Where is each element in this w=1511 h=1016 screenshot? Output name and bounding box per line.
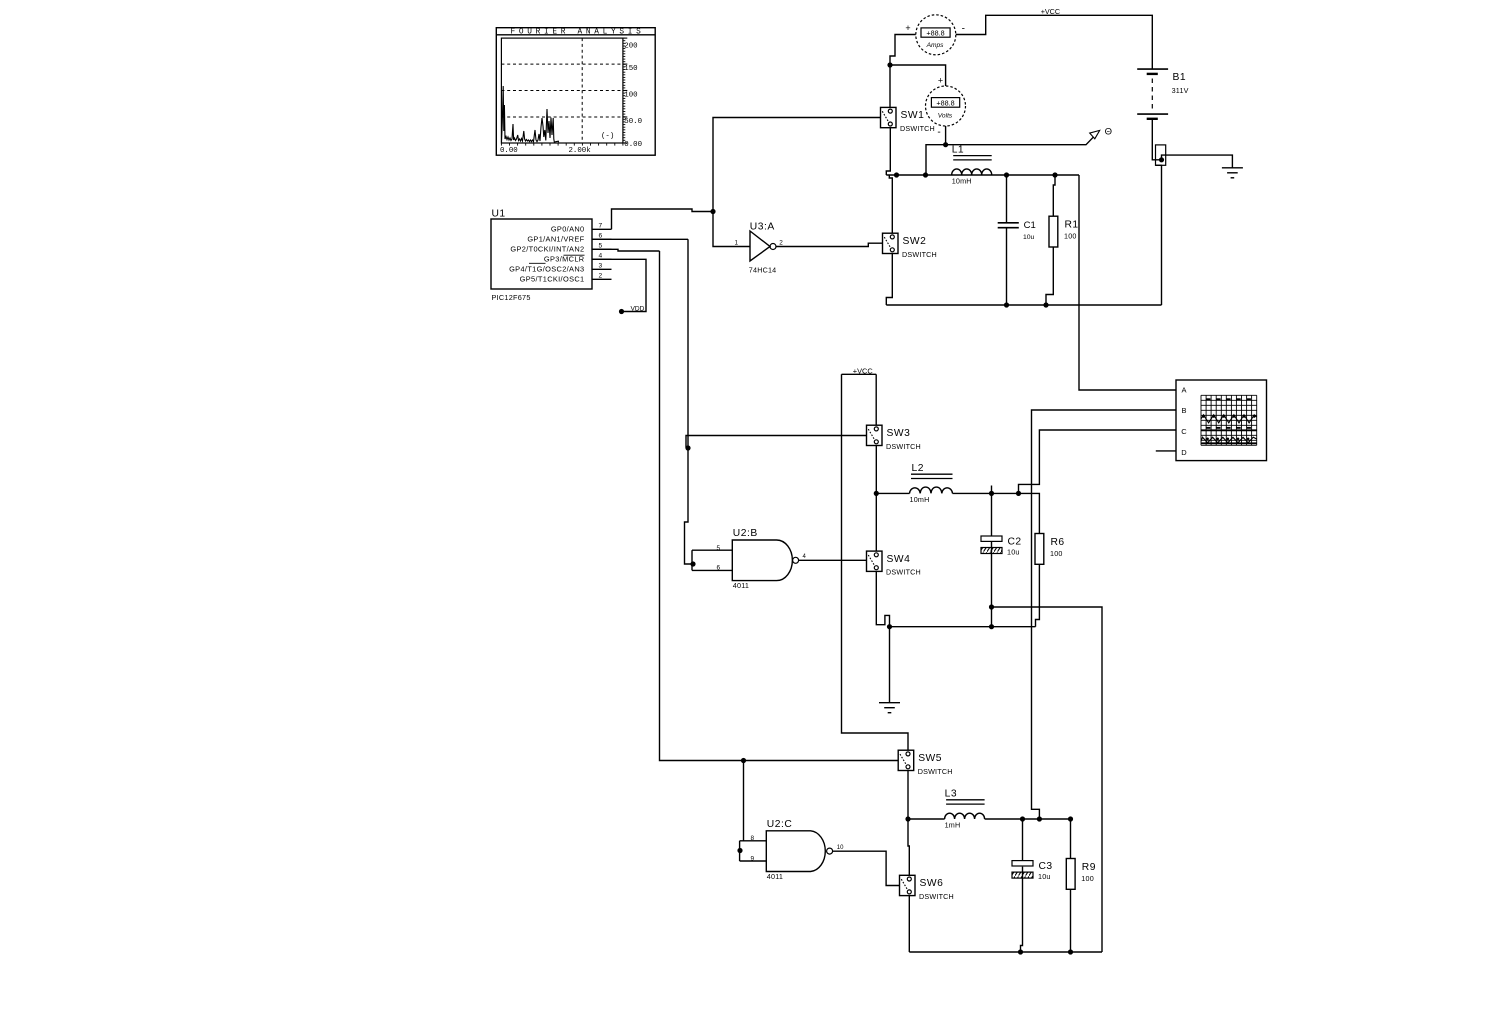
svg-text:U1: U1 xyxy=(492,209,506,220)
ground middle xyxy=(879,703,900,713)
svg-text:4011: 4011 xyxy=(733,581,749,590)
node L2 left junction xyxy=(874,491,879,496)
svg-text:B: B xyxy=(1181,406,1186,415)
wire battery- to terminal xyxy=(1152,119,1161,160)
NAND gate U2:C 4011 xyxy=(766,819,832,881)
display body xyxy=(1176,380,1267,461)
node R9 top xyxy=(1068,816,1073,821)
svg-text:DSWITCH: DSWITCH xyxy=(919,892,954,901)
svg-text:10mH: 10mH xyxy=(910,495,930,504)
node ground rail left xyxy=(887,624,892,629)
wire +VCC down to SW5 top xyxy=(842,374,909,750)
svg-text:L1: L1 xyxy=(952,145,964,156)
svg-text:B1: B1 xyxy=(1173,72,1187,83)
svg-text:DSWITCH: DSWITCH xyxy=(902,250,937,259)
svg-text:GP5/T1CKI/OSC1: GP5/T1CKI/OSC1 xyxy=(520,275,585,284)
wire SW4 bottom notch to ground rail xyxy=(876,571,889,626)
node L3 left junction xyxy=(905,816,910,821)
wire SW1 bottom to rail xyxy=(886,128,890,175)
switch SW3 DSWITCH xyxy=(867,425,921,451)
svg-text:-: - xyxy=(937,127,940,138)
svg-text:GP1/AN1/VREF: GP1/AN1/VREF xyxy=(527,235,584,244)
IC U1 PIC12F675 body xyxy=(491,209,592,303)
terminal box xyxy=(1156,145,1166,165)
wire SW3 bottom to L2 rail xyxy=(875,446,877,494)
wire section3 bottom rail xyxy=(909,951,1102,953)
U2:B input stubs and tie xyxy=(692,550,732,570)
svg-text:+88.8: +88.8 xyxy=(936,98,954,107)
svg-text:C3: C3 xyxy=(1039,861,1053,872)
svg-text:10u: 10u xyxy=(1023,234,1035,241)
wire C3 top lead xyxy=(1022,819,1024,861)
wire A-probe from rail to display xyxy=(1079,175,1176,390)
U2:B pin numbers xyxy=(717,545,807,572)
svg-text:PIC12F675: PIC12F675 xyxy=(492,293,531,302)
wire U1 pin6 down to U2:B inputs xyxy=(592,239,688,448)
svg-text:R1: R1 xyxy=(1065,220,1079,231)
svg-text:200: 200 xyxy=(624,42,637,50)
wire junction to rail xyxy=(926,145,946,175)
svg-text:SW5: SW5 xyxy=(918,753,942,764)
wire C2 top lead xyxy=(991,486,993,537)
wire C3 bottom lead xyxy=(1021,867,1023,952)
svg-text:L2: L2 xyxy=(912,463,924,474)
wire U2:C output to SW6 control xyxy=(833,851,900,885)
wire U1 pin4 to VDD xyxy=(592,259,646,311)
svg-text:VDD: VDD xyxy=(631,306,645,313)
node C2 bottom upper xyxy=(989,604,994,609)
inductor L3 1mH xyxy=(945,789,985,830)
node pin6 branch junction xyxy=(685,445,690,450)
svg-text:Θ: Θ xyxy=(1105,126,1112,137)
switch SW2 DSWITCH xyxy=(883,233,937,259)
node C2 bottom rail xyxy=(989,624,994,629)
svg-text:Amps: Amps xyxy=(926,42,945,49)
svg-text:1: 1 xyxy=(735,239,739,246)
display pin D stub xyxy=(1156,450,1176,452)
node rail SW junction xyxy=(894,172,899,177)
svg-text:C1: C1 xyxy=(1024,220,1036,231)
wire ammeter- to +VCC rail and battery xyxy=(956,15,1152,69)
Fourier plot axes xyxy=(501,38,627,146)
wire C1 bottom xyxy=(1006,228,1008,305)
svg-text:10u: 10u xyxy=(1038,872,1051,881)
wire C2 bottom lead xyxy=(991,542,993,627)
wire terminal to ground xyxy=(1162,155,1233,168)
annotation arrow to theta xyxy=(946,126,1112,144)
svg-text:Volts: Volts xyxy=(938,112,953,119)
node C3 bottom xyxy=(1018,949,1023,954)
resistor R1 100 xyxy=(1049,216,1079,247)
wire C-probe jog to node xyxy=(1019,430,1177,493)
inductor L1 10mH xyxy=(952,145,992,186)
wire SW4 top xyxy=(875,493,877,551)
wire node up to SW1 control xyxy=(713,118,881,212)
svg-text:L3: L3 xyxy=(945,789,957,800)
svg-text:4011: 4011 xyxy=(767,872,783,881)
svg-text:GP2/T0CKI/INT/AN2: GP2/T0CKI/INT/AN2 xyxy=(510,245,584,254)
power label +VCC xyxy=(1041,7,1060,16)
svg-text:C2: C2 xyxy=(1008,537,1022,548)
node R1 top xyxy=(1052,172,1057,177)
svg-text:SW1: SW1 xyxy=(901,110,925,121)
svg-text:100: 100 xyxy=(1081,874,1094,883)
svg-text:DSWITCH: DSWITCH xyxy=(900,124,935,133)
power label +VCC mid xyxy=(853,366,874,375)
wire R1 bottom xyxy=(1046,247,1053,305)
svg-text:GP0/AN0: GP0/AN0 xyxy=(551,225,585,234)
svg-text:50.0: 50.0 xyxy=(624,118,642,126)
wire middle ground rail xyxy=(890,626,1036,628)
node C3 top xyxy=(1020,816,1025,821)
battery B1 xyxy=(1137,69,1188,119)
wire SW5 bottom to L3 rail xyxy=(907,771,909,819)
node ammeter junction xyxy=(887,62,892,67)
wire R6 bottom xyxy=(1036,564,1040,626)
wire B-probe vertical xyxy=(1032,410,1177,819)
node SW5 control junction xyxy=(741,758,746,763)
wire +VCC tee xyxy=(842,374,877,425)
node battery terminal xyxy=(1159,157,1164,162)
wire R1 top xyxy=(1053,175,1055,216)
svg-text:0.00: 0.00 xyxy=(624,141,642,149)
svg-text:DSWITCH: DSWITCH xyxy=(886,568,921,577)
wire terminal down to bottom rail xyxy=(1156,165,1162,305)
svg-text:U2:C: U2:C xyxy=(767,819,793,830)
svg-text:SW2: SW2 xyxy=(903,236,927,247)
svg-text:311V: 311V xyxy=(1172,86,1189,95)
svg-text:GP3/MCLR: GP3/MCLR xyxy=(544,255,585,264)
wire C2 net to section3 rail xyxy=(992,607,1103,952)
svg-text:D: D xyxy=(1181,448,1187,457)
U1 pin numbers xyxy=(599,223,603,280)
U2:C input stubs and tie xyxy=(740,841,767,861)
switch SW6 DSWITCH xyxy=(900,875,954,901)
wire voltmeter- to L1 node xyxy=(945,126,947,145)
wire R9 top lead xyxy=(1070,819,1072,859)
svg-text:SW4: SW4 xyxy=(887,554,911,565)
svg-text:(-): (-) xyxy=(601,132,614,140)
wire ground stem mid xyxy=(889,627,891,703)
wire pin6 net continues to U2:B xyxy=(685,448,693,564)
wire U3:A output to SW2 control xyxy=(776,243,883,246)
svg-text:100: 100 xyxy=(1050,549,1063,558)
wire branch to SW3 control xyxy=(686,436,867,448)
wire U1 pin5 down to SW5 control xyxy=(592,249,898,760)
wire C1 top xyxy=(1006,175,1008,223)
svg-text:GP4/T1G/OSC2/AN3: GP4/T1G/OSC2/AN3 xyxy=(509,265,584,274)
Fourier grid dashed lines xyxy=(501,38,623,143)
Fourier analysis window frame xyxy=(496,28,655,156)
U1 pin stubs xyxy=(592,229,612,279)
wire node to voltmeter+ xyxy=(890,65,946,86)
svg-text:A: A xyxy=(1181,386,1186,395)
svg-text:100: 100 xyxy=(1064,232,1077,241)
display screen grid xyxy=(1201,395,1257,445)
svg-text:150: 150 xyxy=(624,65,637,73)
node B-probe junction xyxy=(1037,816,1042,821)
svg-text:SW3: SW3 xyxy=(887,428,911,439)
node R1 bottom xyxy=(1043,302,1048,307)
svg-text:10mH: 10mH xyxy=(952,176,972,185)
svg-text:2: 2 xyxy=(779,239,783,246)
inductor L2 10mH xyxy=(910,463,953,504)
svg-text:+VCC: +VCC xyxy=(1041,7,1060,16)
wire SW2 bottom to bottom rail xyxy=(886,254,892,306)
svg-text:2.00k: 2.00k xyxy=(569,147,592,155)
resistor R9 100 xyxy=(1066,859,1096,890)
node R9 bottom xyxy=(1068,949,1073,954)
svg-text:DSWITCH: DSWITCH xyxy=(886,442,921,451)
node C2 top xyxy=(989,491,994,496)
wire L3 rail xyxy=(908,818,1071,820)
display waveform pattern xyxy=(1201,398,1257,443)
svg-text:DSWITCH: DSWITCH xyxy=(918,767,953,776)
svg-text:+: + xyxy=(905,23,910,33)
switch SW5 DSWITCH xyxy=(898,750,952,776)
wire U2:B output to SW4 control xyxy=(799,559,867,561)
svg-text:R9: R9 xyxy=(1082,862,1096,873)
svg-text:FOURIER ANALYSIS: FOURIER ANALYSIS xyxy=(511,29,645,37)
node rail L1 left junction xyxy=(923,172,928,177)
wire section1 bottom rail xyxy=(886,304,1161,306)
node pin7 junction xyxy=(710,209,715,214)
capacitor C3 10u xyxy=(1012,861,1053,882)
resistor R6 100 xyxy=(1035,534,1065,565)
svg-text:U2:B: U2:B xyxy=(733,528,758,539)
svg-text:100: 100 xyxy=(624,92,637,100)
wire rail L1 top xyxy=(886,174,1079,176)
svg-text:C: C xyxy=(1181,427,1187,436)
wire R9 bottom lead xyxy=(1070,889,1072,952)
wire control branch to U2:C inputs xyxy=(743,761,745,841)
node L2 out junction xyxy=(1016,491,1021,496)
svg-text:10u: 10u xyxy=(1007,548,1020,557)
switch SW1 DSWITCH xyxy=(881,107,935,133)
switch SW4 DSWITCH xyxy=(867,551,921,577)
node C1 top xyxy=(1004,172,1009,177)
NAND gate U2:B 4011 xyxy=(732,528,798,590)
wire SW2 top to rail xyxy=(889,175,892,233)
svg-text:0.00: 0.00 xyxy=(500,147,518,155)
U1 pin names xyxy=(509,225,585,284)
voltmeter xyxy=(926,75,966,138)
svg-text:1mH: 1mH xyxy=(945,821,961,830)
node U2:C input tie xyxy=(737,848,742,853)
wire ammeter+ to node xyxy=(890,35,916,66)
svg-text:SW6: SW6 xyxy=(920,878,944,889)
svg-text:74HC14: 74HC14 xyxy=(749,265,777,274)
Fourier spectrum trace xyxy=(502,86,559,142)
wire L2 rail xyxy=(876,493,1039,534)
svg-text:10: 10 xyxy=(837,845,844,851)
U2:C pin numbers xyxy=(751,835,845,862)
svg-text:U3:A: U3:A xyxy=(750,222,775,233)
ground top right xyxy=(1222,168,1243,178)
wire node to SW1 top xyxy=(889,65,891,107)
wire SW6 top xyxy=(908,819,909,875)
node U2:B input tie xyxy=(690,561,695,566)
capacitor C1 10u xyxy=(998,220,1036,241)
node C1 bottom xyxy=(1004,302,1009,307)
wire U1 pin7 to node xyxy=(612,209,714,229)
svg-text:+: + xyxy=(938,75,943,85)
inverter U3:A 74HC14 xyxy=(735,222,784,275)
node voltmeter junction xyxy=(943,142,948,147)
capacitor C2 10u xyxy=(981,536,1022,557)
Fourier axis labels xyxy=(500,42,642,155)
svg-text:R6: R6 xyxy=(1051,537,1065,548)
power terminal VDD xyxy=(619,306,645,315)
svg-text:+88.8: +88.8 xyxy=(926,28,944,37)
wire SW6 bottom to rail xyxy=(908,896,910,952)
wire node down to U3:A input xyxy=(713,212,750,247)
svg-text:-: - xyxy=(962,23,965,34)
ammeter xyxy=(905,15,965,55)
